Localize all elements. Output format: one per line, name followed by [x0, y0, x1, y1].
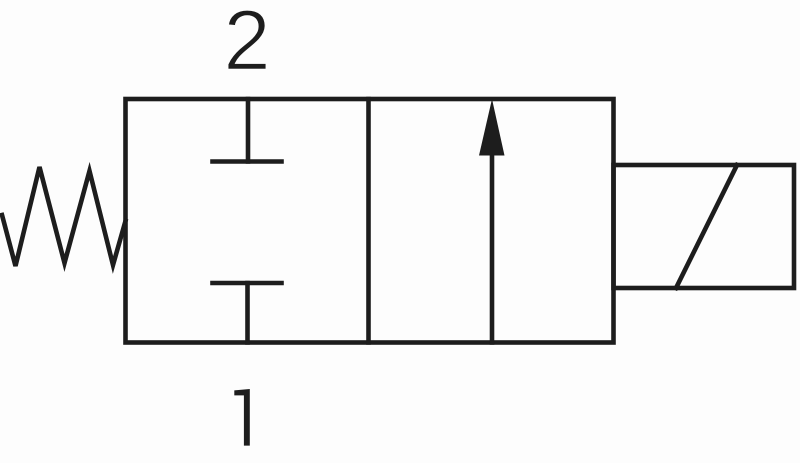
- return spring: [2, 167, 126, 266]
- port 1 blocked symbol: stem: [245, 283, 250, 343]
- flow arrow head: [479, 99, 505, 156]
- label port 1: [234, 389, 250, 446]
- svg-text:2: 2: [223, 0, 270, 88]
- divider between valve positions: [366, 99, 371, 343]
- valve body box (left square, closed position): [126, 99, 614, 343]
- solenoid diagonal: [676, 165, 737, 288]
- solenoid box: [614, 165, 795, 288]
- port 2 blocked symbol: bar: [213, 159, 282, 164]
- port 2 blocked symbol: stem: [246, 99, 251, 162]
- port 1 blocked symbol: bar: [213, 281, 282, 286]
- flow arrow shaft: [490, 155, 495, 343]
